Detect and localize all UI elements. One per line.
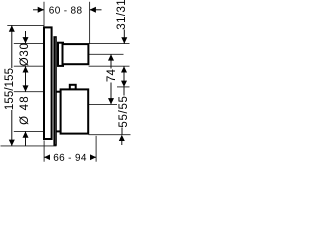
svg-text:74: 74	[106, 69, 118, 83]
svg-text:60 - 88: 60 - 88	[49, 5, 83, 16]
svg-text:Ø30: Ø30	[19, 42, 31, 66]
svg-text:66 - 94: 66 - 94	[53, 153, 87, 164]
svg-text:Ø 48: Ø 48	[19, 95, 31, 125]
svg-text:31/31: 31/31	[116, 0, 128, 30]
svg-text:55/55: 55/55	[118, 95, 130, 127]
svg-text:155/155: 155/155	[4, 68, 16, 110]
